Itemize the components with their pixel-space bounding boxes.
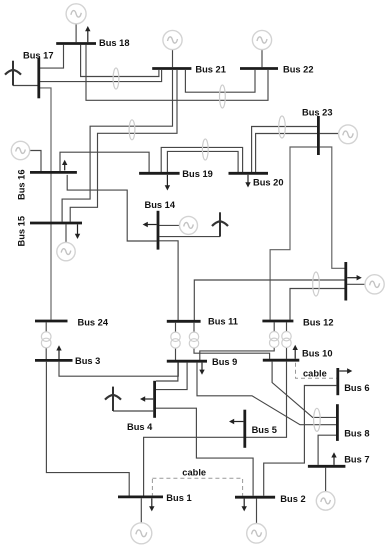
svg-text:Bus 21: Bus 21 <box>195 65 226 75</box>
svg-text:Bus 4: Bus 4 <box>127 422 153 432</box>
svg-text:Bus 19: Bus 19 <box>182 169 213 179</box>
svg-text:Bus 8: Bus 8 <box>344 429 369 439</box>
svg-text:cable: cable <box>182 468 206 478</box>
svg-text:Bus 11: Bus 11 <box>208 317 238 327</box>
svg-text:Bus 15: Bus 15 <box>16 216 26 247</box>
svg-text:Bus 1: Bus 1 <box>166 493 191 503</box>
svg-text:Bus 17: Bus 17 <box>23 51 54 61</box>
svg-text:Bus 14: Bus 14 <box>145 200 176 210</box>
svg-text:Bus 9: Bus 9 <box>212 357 237 367</box>
svg-text:Bus 6: Bus 6 <box>344 383 369 393</box>
svg-text:Bus 2: Bus 2 <box>280 494 305 504</box>
svg-text:cable: cable <box>303 369 327 379</box>
svg-text:Bus 7: Bus 7 <box>344 455 369 465</box>
svg-text:Bus 5: Bus 5 <box>252 425 277 435</box>
svg-text:Bus 12: Bus 12 <box>303 318 334 328</box>
svg-text:Bus 3: Bus 3 <box>75 356 100 366</box>
svg-text:Bus 24: Bus 24 <box>78 318 109 328</box>
svg-text:Bus 23: Bus 23 <box>302 108 333 118</box>
svg-text:Bus 18: Bus 18 <box>99 38 130 48</box>
svg-text:Bus 20: Bus 20 <box>253 178 284 188</box>
svg-text:Bus 10: Bus 10 <box>302 349 333 359</box>
svg-text:Bus 16: Bus 16 <box>16 170 26 201</box>
svg-text:Bus 22: Bus 22 <box>283 65 314 75</box>
